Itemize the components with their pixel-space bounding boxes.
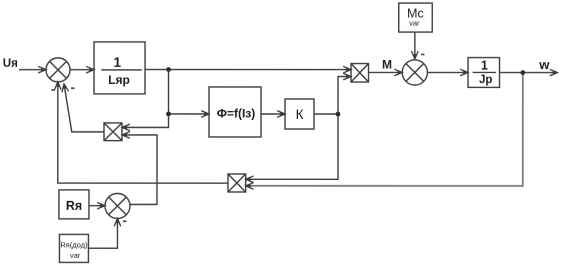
svg-text:Ф=f(Iз): Ф=f(Iз) [217,107,256,121]
svg-text:Uя: Uя [3,58,18,70]
svg-text:w: w [538,57,550,72]
svg-text:К: К [296,107,304,122]
svg-text:1: 1 [113,55,121,70]
svg-text:Jp: Jp [479,74,492,86]
svg-text:Rя(дод): Rя(дод) [60,240,88,249]
svg-text:1: 1 [481,59,488,73]
svg-text:var: var [409,19,420,28]
svg-text:M: M [382,57,392,71]
svg-text:Rя: Rя [66,199,82,213]
svg-text:Lяр: Lяр [108,73,130,87]
svg-text:var: var [70,251,81,260]
